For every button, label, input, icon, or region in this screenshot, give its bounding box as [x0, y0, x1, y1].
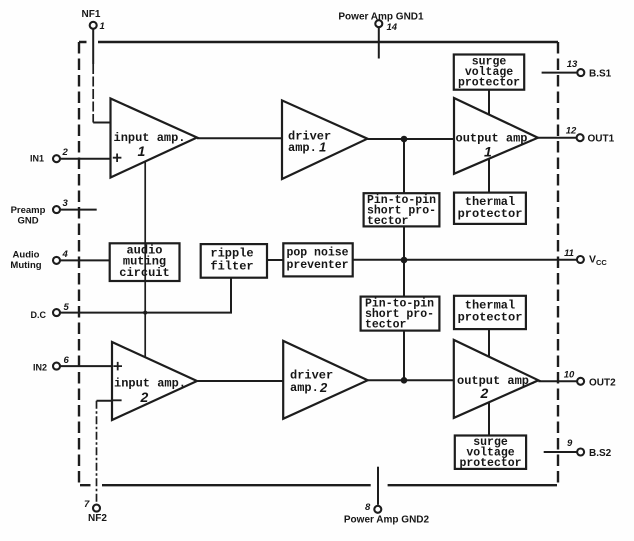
pin 14 Power Amp GND1 terminal	[375, 20, 382, 27]
svg-text:2: 2	[140, 389, 149, 405]
box audio muting circuit	[110, 243, 180, 281]
svg-text:Preamp: Preamp	[11, 205, 46, 216]
wire pin-to-pin 2 to driver2 output line	[403, 331, 405, 381]
wire center spine segment driver1 to pin-to-pin 1	[403, 139, 405, 193]
node junction driver1/output1 line	[401, 136, 408, 143]
box surge voltage protector 1	[454, 55, 524, 90]
wire driver amp 2 output to output amp 2	[368, 379, 454, 381]
pin 3 Preamp GND terminal	[53, 206, 60, 213]
wire thermal protector 2 to output amp 2	[488, 329, 490, 357]
box ripple filter	[201, 244, 267, 278]
node junction Vcc line	[401, 257, 408, 264]
pin 4 Audio Muting terminal	[53, 257, 60, 264]
pin 12 OUT1 terminal	[577, 134, 584, 141]
node junction driver2/output2 line	[401, 377, 408, 384]
wire B.S2 stub	[544, 451, 577, 453]
wire muting line input amp 1 to audio muting circuit to input amp 2	[144, 162, 146, 358]
svg-text:12: 12	[566, 126, 577, 137]
svg-text:1: 1	[138, 143, 146, 159]
svg-text:14: 14	[387, 22, 398, 33]
wire input amp 1 output to driver amp 1	[197, 137, 282, 139]
svg-text:7: 7	[84, 499, 90, 510]
svg-text:B.S2: B.S2	[589, 448, 612, 459]
svg-text:OUT2: OUT2	[589, 378, 616, 389]
svg-text:5: 5	[64, 302, 70, 313]
box surge voltage protector 2	[455, 436, 526, 469]
wire ripple filter to pop noise preventer	[267, 259, 283, 261]
svg-text:filter: filter	[210, 260, 253, 274]
wire IN1 to input amp 1 non-inverting input	[60, 158, 111, 160]
svg-text:IN2: IN2	[33, 363, 47, 373]
wire pin-to-pin 1 to Vcc line	[403, 226, 405, 260]
svg-text:NF1: NF1	[82, 9, 101, 20]
svg-text:Muting: Muting	[10, 260, 41, 271]
box pin-to-pin short protector 1	[364, 193, 440, 226]
svg-text:protector: protector	[458, 207, 523, 221]
IC outline right border (dashed)	[557, 42, 559, 484]
svg-text:13: 13	[567, 59, 578, 70]
svg-text:2: 2	[319, 380, 328, 395]
svg-text:8: 8	[365, 502, 371, 513]
svg-text:amp.: amp.	[288, 141, 317, 155]
svg-text:tector: tector	[367, 215, 409, 228]
svg-text:pop noise: pop noise	[286, 247, 348, 260]
wire pop noise preventer to Vcc pin 11	[353, 259, 577, 261]
svg-text:2: 2	[62, 147, 69, 158]
wire surge voltage protector 1 to output amp 1	[488, 90, 490, 115]
pin 6 IN2 terminal	[53, 363, 60, 370]
wire IN2 to input amp 2 non-inverting input	[60, 365, 112, 367]
svg-text:input amp.: input amp.	[114, 131, 186, 145]
wire NF2 to input amp 2 inverting input	[97, 400, 114, 402]
op-amp output amp 2	[454, 340, 539, 418]
IC outline left border (dashed)	[78, 42, 80, 485]
svg-text:1: 1	[319, 140, 326, 155]
op-amp driver amp 1	[282, 100, 367, 179]
svg-text:11: 11	[564, 248, 574, 259]
wire Power Amp GND2 lead	[377, 467, 379, 505]
wire output amp 2 to surge voltage protector 2	[488, 402, 490, 435]
svg-text:Power Amp GND1: Power Amp GND1	[338, 12, 424, 23]
pin 9 B.S2 terminal	[577, 449, 584, 456]
node muting line / D.C line crossing	[143, 311, 147, 315]
wire output amp 2 to OUT2 pin	[538, 380, 577, 382]
svg-text:protector: protector	[458, 77, 520, 90]
box pop noise preventer	[283, 243, 352, 276]
box thermal protector 2	[454, 296, 526, 329]
svg-text:B.S1: B.S1	[589, 69, 612, 80]
svg-text:output amp.: output amp.	[457, 374, 536, 388]
svg-text:ripple: ripple	[210, 247, 253, 261]
pin 13 B.S1 terminal	[577, 69, 584, 76]
wire Audio Muting pin to audio muting circuit	[60, 259, 110, 261]
wire output amp 1 to thermal protector 1	[488, 159, 490, 193]
op-amp driver amp 2	[283, 341, 368, 419]
wire driver amp 1 output to output amp 1	[367, 138, 454, 140]
pin 5 D.C terminal	[53, 309, 60, 316]
svg-text:protector: protector	[459, 457, 521, 470]
svg-text:preventer: preventer	[286, 259, 348, 272]
svg-text:D.C: D.C	[31, 310, 47, 320]
svg-text:amp.: amp.	[290, 381, 319, 395]
svg-text:2: 2	[480, 385, 489, 401]
svg-text:NF2: NF2	[88, 513, 107, 524]
svg-text:Audio: Audio	[13, 250, 40, 261]
svg-text:9: 9	[567, 438, 573, 449]
box pin-to-pin short protector 2	[361, 297, 440, 331]
wire D.C pin to ripple filter	[60, 278, 231, 313]
wire Preamp GND stub	[60, 209, 97, 211]
wire Vcc line to pin-to-pin 2	[403, 260, 405, 297]
svg-text:6: 6	[64, 355, 70, 366]
box thermal protector 1	[454, 193, 526, 224]
svg-text:IN1: IN1	[30, 154, 44, 164]
svg-text:OUT1: OUT1	[588, 134, 615, 145]
pin 1 NF1 terminal	[90, 22, 97, 29]
svg-text:circuit: circuit	[119, 266, 169, 280]
svg-text:10: 10	[564, 370, 575, 381]
op-amp input amp 1	[111, 99, 198, 178]
svg-text:output amp.: output amp.	[456, 132, 535, 146]
svg-text:1: 1	[100, 21, 105, 32]
svg-text:protector: protector	[458, 311, 523, 325]
wire input amp 2 output to driver amp 2	[197, 380, 284, 382]
op-amp output amp 1	[454, 98, 538, 174]
svg-text:input amp.: input amp.	[114, 377, 186, 391]
op-amp input amp 2	[112, 342, 197, 420]
svg-text:GND: GND	[17, 216, 38, 227]
wire NF1 feedback to input amp 1 inverting input	[92, 29, 94, 64]
svg-text:tector: tector	[365, 319, 407, 332]
IC outline bottom border	[80, 484, 557, 486]
pin 7 NF2 terminal	[93, 505, 100, 512]
IC outline top border	[79, 41, 558, 43]
svg-text:1: 1	[484, 144, 492, 160]
svg-text:Power Amp GND2: Power Amp GND2	[344, 515, 430, 526]
wire B.S1 stub	[542, 72, 578, 74]
wire output amp 1 to OUT1 pin	[538, 137, 577, 139]
pin 2 IN1 terminal	[53, 155, 60, 162]
svg-text:3: 3	[63, 198, 69, 209]
wire Power Amp GND1 lead	[378, 27, 380, 58]
pin 8 Power Amp GND2 terminal	[374, 506, 381, 513]
pin 10 OUT2 terminal	[577, 378, 584, 385]
pin 11 Vcc terminal	[577, 256, 584, 263]
svg-text:4: 4	[62, 249, 69, 260]
